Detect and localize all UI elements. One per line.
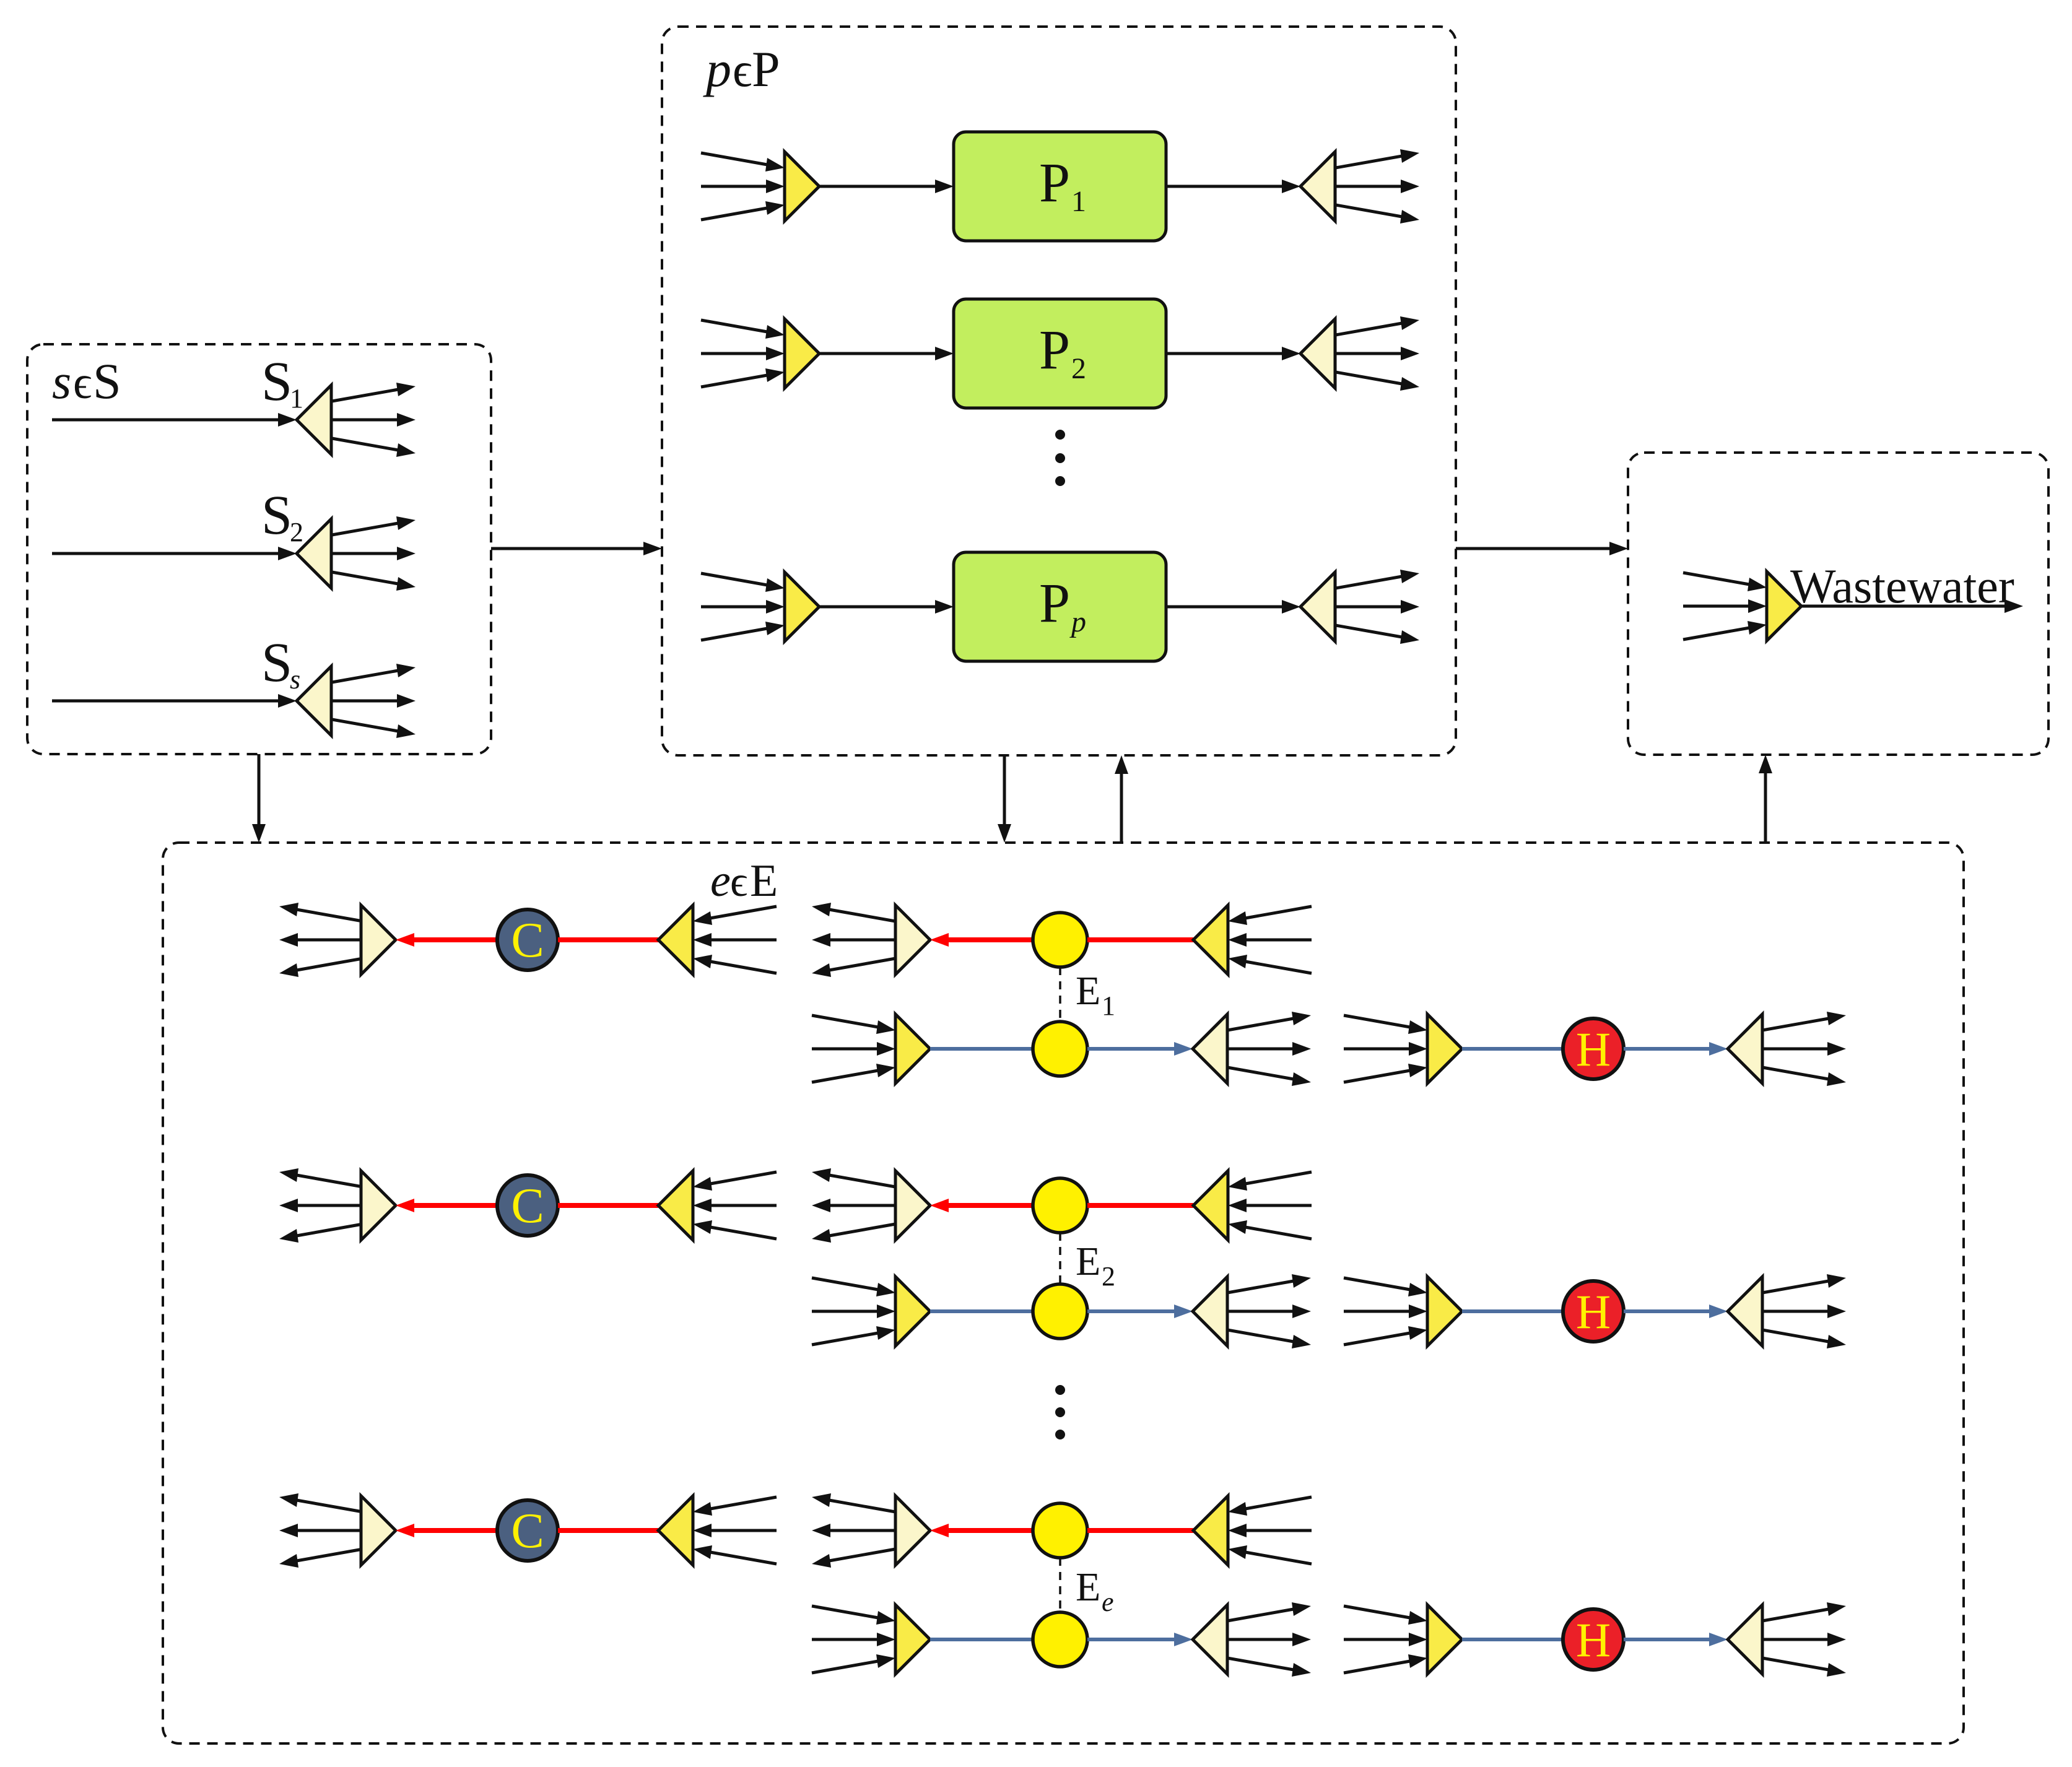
heater splitter group 2 bbox=[1728, 1277, 1762, 1346]
exchanger hot red wire group 2 bbox=[930, 1199, 1033, 1212]
cooler mixer group 2 bbox=[658, 1171, 693, 1240]
cooler red wire left group 2 bbox=[396, 1199, 497, 1212]
splitter P2 bbox=[1300, 319, 1335, 388]
exchanger cold splitter group 2 bbox=[1193, 1277, 1227, 1346]
svg-text:2: 2 bbox=[1071, 352, 1086, 385]
svg-text:S: S bbox=[261, 351, 292, 412]
arrow P box down to E box bbox=[998, 755, 1011, 843]
cooler fan-out group e bbox=[279, 1493, 363, 1568]
heater blue wire left group e bbox=[1462, 1638, 1563, 1641]
svg-text:S: S bbox=[93, 353, 121, 409]
splitter for Ss bbox=[297, 666, 331, 736]
svg-text:E: E bbox=[1076, 968, 1100, 1014]
exchanger hot red wire group 1 bbox=[930, 933, 1033, 947]
svg-text:S: S bbox=[261, 632, 292, 693]
cooler fan-in group e bbox=[693, 1497, 777, 1564]
svg-text:ϵ: ϵ bbox=[733, 43, 752, 97]
exchanger cold blue wire left group e bbox=[930, 1638, 1033, 1641]
exchanger hot red wire right group 1 bbox=[1087, 937, 1193, 942]
heater splitter group 1 bbox=[1728, 1014, 1762, 1083]
svg-text:1: 1 bbox=[1102, 991, 1115, 1021]
exchanger cold node group e bbox=[1033, 1612, 1087, 1667]
label E2 bbox=[1076, 1239, 1115, 1292]
arrow E box up to wastewater box bbox=[1759, 755, 1772, 843]
splitter P1 bbox=[1300, 152, 1335, 221]
svg-text:p: p bbox=[703, 41, 731, 97]
svg-text:P: P bbox=[752, 41, 780, 97]
label s in S bbox=[52, 353, 121, 409]
source stream line S2 bbox=[52, 547, 297, 560]
cooler fan-in group 1 bbox=[693, 906, 777, 973]
heater fan-in group e bbox=[1344, 1606, 1427, 1673]
heater H group 2 bbox=[1563, 1281, 1624, 1342]
exchanger cold splitter group 1 bbox=[1193, 1014, 1227, 1083]
exchanger cold blue wire left group 2 bbox=[930, 1309, 1033, 1313]
splitter for S1 bbox=[297, 385, 331, 454]
exchanger cold fan-in group 2 bbox=[812, 1278, 895, 1345]
exchanger hot node group 2 bbox=[1033, 1178, 1087, 1233]
svg-text:p: p bbox=[1069, 606, 1086, 638]
process box P2 bbox=[954, 299, 1166, 408]
heater blue wire left group 2 bbox=[1462, 1309, 1563, 1313]
exchanger hot node group e bbox=[1033, 1503, 1087, 1558]
svg-text:H: H bbox=[1576, 1022, 1611, 1076]
label E1 bbox=[1076, 968, 1115, 1021]
splitter Pp bbox=[1300, 572, 1335, 641]
cooler splitter group 1 bbox=[361, 905, 396, 975]
fan-out arrows Ss bbox=[332, 664, 416, 738]
mixer fan-in P1 bbox=[701, 153, 785, 220]
wastewater mixer fan-in bbox=[1683, 573, 1767, 640]
heater blue wire right group e bbox=[1624, 1633, 1728, 1646]
mixer Pp bbox=[785, 572, 819, 641]
svg-text:E: E bbox=[1076, 1565, 1100, 1610]
heater H group 1 bbox=[1563, 1018, 1624, 1079]
svg-text:C: C bbox=[511, 913, 544, 968]
exchanger cold splitter group e bbox=[1193, 1605, 1227, 1674]
exchanger cold fan-in group e bbox=[812, 1606, 895, 1673]
heater mixer group e bbox=[1427, 1605, 1462, 1674]
heater blue wire right group 1 bbox=[1624, 1042, 1728, 1056]
cooler mixer group e bbox=[658, 1496, 693, 1565]
exchanger cold blue wire right group 2 bbox=[1087, 1305, 1193, 1318]
source stream line Ss bbox=[52, 694, 297, 708]
fan-out arrows Pp bbox=[1336, 570, 1419, 644]
mixer fan-in P2 bbox=[701, 320, 785, 387]
dashed box wastewater bbox=[1628, 453, 2048, 755]
dashed box e in E (heat exchange) bbox=[163, 843, 1964, 1743]
arrow S box down to E box bbox=[252, 754, 266, 843]
heater fan-out group 2 bbox=[1762, 1274, 1846, 1348]
exchanger hot mixer group 2 bbox=[1193, 1171, 1228, 1240]
label p in P bbox=[703, 41, 780, 97]
svg-text:E: E bbox=[750, 856, 778, 906]
wire mixer to Pp bbox=[819, 600, 954, 614]
wire mixer to P2 bbox=[819, 347, 954, 360]
cooler fan-out group 2 bbox=[279, 1168, 363, 1243]
exchanger link Ee bbox=[1059, 1558, 1061, 1612]
exchanger cold node group 1 bbox=[1033, 1022, 1087, 1076]
cooler splitter group 2 bbox=[361, 1171, 396, 1240]
dots in P box bbox=[1055, 430, 1065, 486]
svg-text:2: 2 bbox=[290, 517, 303, 547]
fan-out arrows P2 bbox=[1336, 316, 1419, 391]
svg-text:E: E bbox=[1076, 1239, 1100, 1284]
svg-text:S: S bbox=[261, 485, 292, 546]
wire mixer to P1 bbox=[819, 180, 954, 193]
svg-text:H: H bbox=[1576, 1285, 1611, 1339]
exchanger hot fan-in group 1 bbox=[1228, 906, 1312, 973]
heater H group e bbox=[1563, 1609, 1624, 1670]
arrow P box to wastewater box bbox=[1456, 542, 1628, 555]
cooler red wire right group e bbox=[558, 1528, 658, 1533]
exchanger cold blue wire right group 1 bbox=[1087, 1042, 1193, 1056]
heater fan-in group 1 bbox=[1344, 1015, 1427, 1082]
process box Pp bbox=[954, 552, 1166, 661]
svg-text:C: C bbox=[511, 1179, 544, 1233]
mixer P2 bbox=[785, 319, 819, 388]
arrow S box to P box bbox=[491, 542, 662, 555]
heater blue wire right group 2 bbox=[1624, 1305, 1728, 1318]
fan-out arrows S1 bbox=[332, 383, 416, 457]
cooler red wire left group e bbox=[396, 1524, 497, 1537]
label e in E bbox=[710, 856, 778, 906]
exchanger hot splitter group 2 bbox=[895, 1171, 930, 1240]
fan-out arrows S2 bbox=[332, 516, 416, 591]
wastewater mixer bbox=[1767, 571, 1801, 641]
svg-text:1: 1 bbox=[1071, 185, 1086, 218]
exchanger hot fan-out group e bbox=[812, 1493, 895, 1568]
svg-text:Wastewater: Wastewater bbox=[1790, 559, 2014, 613]
heater splitter group e bbox=[1728, 1605, 1762, 1674]
wire P1 to splitter bbox=[1166, 180, 1300, 193]
exchanger hot mixer group e bbox=[1193, 1496, 1228, 1565]
svg-text:e: e bbox=[710, 856, 731, 906]
svg-text:P: P bbox=[1039, 573, 1070, 634]
exchanger hot fan-out group 1 bbox=[812, 903, 895, 977]
fan-out arrows P1 bbox=[1336, 149, 1419, 224]
exchanger cold mixer group 1 bbox=[895, 1014, 930, 1083]
exchanger cold mixer group 2 bbox=[895, 1277, 930, 1346]
exchanger hot red wire right group e bbox=[1087, 1528, 1193, 1533]
heater fan-out group e bbox=[1762, 1602, 1846, 1677]
svg-text:s: s bbox=[52, 355, 71, 409]
cooler fan-in group 2 bbox=[693, 1172, 777, 1239]
svg-text:H: H bbox=[1576, 1613, 1611, 1667]
cooler fan-out group 1 bbox=[279, 903, 363, 977]
process box P1 bbox=[954, 132, 1166, 241]
svg-text:s: s bbox=[290, 664, 300, 695]
svg-text:ϵ: ϵ bbox=[730, 858, 747, 906]
svg-text:e: e bbox=[1102, 1587, 1114, 1617]
mixer P1 bbox=[785, 152, 819, 221]
exchanger hot mixer group 1 bbox=[1193, 905, 1228, 975]
cooler mixer group 1 bbox=[658, 905, 693, 975]
cooler C group 1 bbox=[497, 910, 558, 970]
exchanger cold node group 2 bbox=[1033, 1284, 1087, 1339]
source stream line S1 bbox=[52, 413, 297, 427]
exchanger cold blue wire left group 1 bbox=[930, 1047, 1033, 1051]
heater fan-out group 1 bbox=[1762, 1012, 1846, 1086]
label S2 bbox=[261, 485, 303, 547]
dashed box s in S (source streams) bbox=[27, 344, 491, 754]
exchanger hot red wire group e bbox=[930, 1524, 1033, 1537]
cooler red wire right group 1 bbox=[558, 937, 658, 942]
exchanger hot splitter group 1 bbox=[895, 905, 930, 975]
cooler splitter group e bbox=[361, 1496, 396, 1565]
label Ss bbox=[261, 632, 300, 695]
cooler C group e bbox=[497, 1500, 558, 1561]
arrow E box up to P box bbox=[1115, 755, 1128, 843]
svg-text:1: 1 bbox=[290, 383, 303, 414]
exchanger hot fan-in group 2 bbox=[1228, 1172, 1312, 1239]
exchanger link E1 bbox=[1059, 967, 1061, 1022]
wastewater outlet arrow bbox=[1801, 599, 2023, 613]
label Ee bbox=[1076, 1565, 1114, 1617]
svg-text:C: C bbox=[511, 1504, 544, 1558]
heater fan-in group 2 bbox=[1344, 1278, 1427, 1345]
exchanger hot fan-in group e bbox=[1228, 1497, 1312, 1564]
wire Pp to splitter bbox=[1166, 600, 1300, 614]
cooler C group 2 bbox=[497, 1175, 558, 1236]
cooler red wire right group 2 bbox=[558, 1203, 658, 1208]
exchanger link E2 bbox=[1059, 1233, 1061, 1284]
exchanger hot node group 1 bbox=[1033, 913, 1087, 967]
exchanger hot red wire right group 2 bbox=[1087, 1203, 1193, 1208]
dashed box p in P (process units) bbox=[662, 27, 1456, 755]
heater mixer group 1 bbox=[1427, 1014, 1462, 1083]
exchanger cold fan-out group e bbox=[1227, 1602, 1311, 1677]
exchanger cold blue wire right group e bbox=[1087, 1633, 1193, 1646]
splitter for S2 bbox=[297, 519, 331, 588]
svg-text:2: 2 bbox=[1102, 1261, 1115, 1292]
label S1 bbox=[261, 351, 303, 414]
exchanger hot splitter group e bbox=[895, 1496, 930, 1565]
exchanger cold mixer group e bbox=[895, 1605, 930, 1674]
mixer fan-in Pp bbox=[701, 573, 785, 640]
svg-text:P: P bbox=[1039, 152, 1070, 214]
wire P2 to splitter bbox=[1166, 347, 1300, 360]
exchanger hot fan-out group 2 bbox=[812, 1168, 895, 1243]
cooler red wire left group 1 bbox=[396, 933, 497, 947]
heater mixer group 2 bbox=[1427, 1277, 1462, 1346]
heater blue wire left group 1 bbox=[1462, 1047, 1563, 1051]
exchanger cold fan-out group 1 bbox=[1227, 1012, 1311, 1086]
dots in E box bbox=[1055, 1385, 1065, 1439]
svg-text:P: P bbox=[1039, 319, 1070, 381]
exchanger cold fan-in group 1 bbox=[812, 1015, 895, 1082]
exchanger cold fan-out group 2 bbox=[1227, 1274, 1311, 1348]
svg-text:ϵ: ϵ bbox=[73, 357, 92, 409]
label Wastewater bbox=[1790, 559, 2014, 613]
